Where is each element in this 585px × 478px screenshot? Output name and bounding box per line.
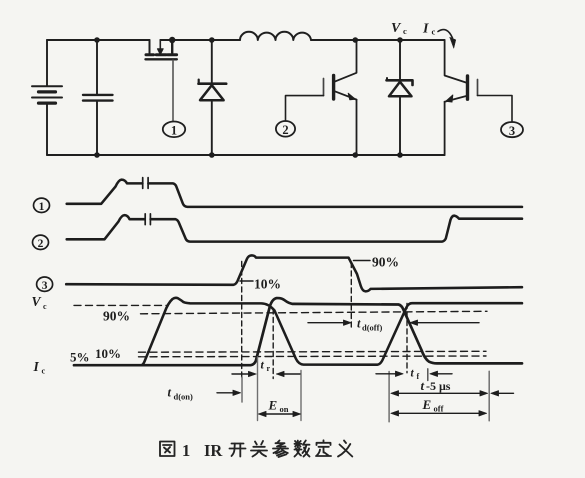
waveform gate 2 — [67, 215, 522, 242]
svg-text:2: 2 — [282, 123, 288, 137]
node 2 row label — [33, 235, 49, 250]
svg-text:d(on): d(on) — [174, 392, 194, 402]
dashed vertical at turn-on 10pc — [241, 262, 243, 378]
svg-text:2: 2 — [38, 238, 44, 250]
node 1 label — [163, 122, 185, 138]
svg-text:t: t — [411, 368, 415, 380]
arrow t-5us outside — [497, 392, 514, 394]
boundary line Eoff right — [488, 371, 490, 421]
svg-text:c: c — [42, 367, 46, 376]
igbt Q2 — [324, 40, 357, 155]
svg-text:1: 1 — [182, 441, 190, 460]
node 3 row label — [37, 277, 53, 292]
svg-text:E: E — [422, 397, 432, 412]
svg-text:IR: IR — [204, 441, 223, 460]
svg-text:d(off): d(off) — [362, 323, 382, 333]
dashed vertical at Ic fall 90pc — [406, 304, 408, 373]
svg-text:10%: 10% — [254, 277, 281, 292]
caption char can (parameter) — [273, 441, 288, 458]
svg-text:on: on — [280, 404, 289, 414]
label Vc row — [32, 294, 48, 311]
label Eon — [268, 398, 289, 415]
svg-text:off: off — [434, 404, 444, 414]
svg-text:V: V — [32, 294, 42, 309]
arrow Ic direction — [438, 30, 456, 49]
svg-text:I: I — [422, 22, 429, 37]
arrow t-5us — [397, 392, 483, 394]
wire battery left — [46, 40, 48, 155]
svg-text:3: 3 — [509, 124, 515, 138]
svg-text:t: t — [168, 386, 172, 400]
break marks row 2 — [145, 214, 150, 225]
waveform gate 1 — [67, 180, 522, 207]
caption char tu (figure) — [160, 442, 175, 457]
caption char yi (meaning) — [338, 441, 352, 457]
dashed level 100pc Vc — [74, 304, 168, 306]
label Ic top — [422, 22, 436, 37]
label tr — [261, 358, 271, 374]
caption char kai (open) — [230, 444, 246, 457]
dashed level 5pc — [139, 355, 487, 358]
mosfet Q1 — [146, 40, 177, 59]
waveform gate 3 — [66, 255, 522, 291]
svg-text:-5 μs: -5 μs — [426, 379, 451, 393]
boundary line Eon right — [300, 371, 302, 421]
wire bottom rail — [47, 154, 445, 156]
svg-text:r: r — [267, 364, 271, 373]
svg-text:t: t — [261, 358, 265, 372]
dashed vertical at turn-off 90pc — [350, 263, 352, 329]
svg-text:f: f — [417, 372, 420, 381]
caption char shu (number) — [295, 441, 310, 457]
boundary line Eon left — [257, 357, 259, 421]
svg-text:c: c — [403, 26, 407, 36]
arrow td(on) — [217, 392, 234, 394]
svg-text:t: t — [357, 317, 361, 331]
svg-text:V: V — [391, 21, 402, 36]
tick 90% on fall of gate 3 — [354, 260, 371, 262]
svg-text:5%: 5% — [70, 350, 90, 365]
diode D1 — [199, 40, 227, 155]
node 3 label — [501, 122, 523, 138]
igbt Q3 — [445, 40, 478, 155]
caption char ding (fixed) — [316, 440, 331, 456]
inductor L1 — [240, 32, 311, 40]
wire gate of Q2 to node 2 — [286, 96, 324, 121]
junction dots — [94, 37, 403, 158]
break marks row 1 — [143, 178, 148, 189]
tick 10% on rise of gate 3 — [240, 280, 253, 282]
arrow tf right — [437, 373, 453, 375]
label Eoff — [422, 397, 444, 414]
label td(on) — [168, 386, 194, 402]
boundary line Eoff left — [388, 372, 390, 422]
boundary line td(on) — [241, 377, 243, 402]
svg-text:1: 1 — [171, 124, 177, 138]
arrow tr left — [232, 373, 250, 375]
SCHEMATIC — [32, 21, 523, 158]
caption char guan (close) — [251, 441, 267, 457]
arrow tr right — [283, 373, 300, 375]
waveform Vc — [142, 298, 523, 365]
svg-text:1: 1 — [39, 201, 45, 213]
wire top rail — [47, 39, 445, 41]
label Ic row — [33, 359, 46, 376]
label Vc top — [391, 21, 407, 36]
arrow Eon — [263, 413, 296, 415]
wire gate of Q1 down to node 1 — [172, 60, 174, 121]
DIMENSION ARROWS — [168, 317, 514, 417]
svg-text:c: c — [43, 302, 47, 311]
dashed level 10pc — [139, 350, 487, 353]
svg-text:90%: 90% — [103, 309, 130, 324]
svg-text:c: c — [432, 27, 436, 37]
arrow td(off) right — [417, 322, 480, 324]
label tf — [411, 368, 420, 382]
diode D2 — [387, 40, 413, 155]
capacitor C1 — [83, 40, 113, 155]
dashed level 90pc — [141, 311, 488, 314]
CAPTION — [160, 440, 352, 460]
wire gate of Q3 to node 3 — [478, 96, 513, 123]
dashed vertical at Ic 90pc — [272, 309, 274, 379]
label td(off) — [357, 317, 382, 333]
boundary line tf right — [427, 369, 429, 381]
svg-text:t: t — [421, 378, 425, 393]
label t-5us — [421, 378, 451, 393]
node 2 label — [276, 121, 295, 137]
waveform Ic — [74, 298, 522, 365]
node 1 row label — [34, 198, 50, 213]
svg-text:E: E — [268, 398, 278, 413]
arrow tf left — [376, 373, 397, 375]
battery B1 — [32, 86, 62, 103]
WAVEFORMS — [32, 178, 523, 422]
arrow Eoff — [397, 412, 482, 414]
arrow td(off) left — [308, 322, 345, 324]
svg-text:10%: 10% — [95, 346, 121, 361]
svg-text:I: I — [33, 359, 40, 374]
svg-text:90%: 90% — [372, 255, 399, 270]
svg-text:3: 3 — [42, 280, 48, 292]
